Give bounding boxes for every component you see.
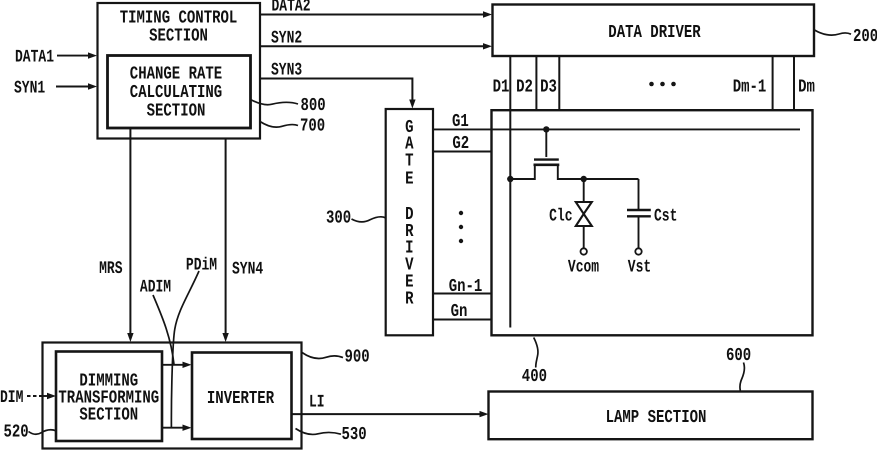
data line D2 (535, 57, 537, 111)
ellipsis between data lines (649, 82, 676, 87)
block: timing control section 700 (98, 3, 261, 139)
data line Dm-1 (772, 57, 774, 111)
svg-text:800: 800 (301, 96, 326, 117)
svg-text:DATA DRIVER: DATA DRIVER (608, 23, 701, 44)
svg-text:Vcom: Vcom (568, 257, 599, 277)
leader + label 600 (726, 346, 751, 391)
svg-text:D2: D2 (516, 77, 533, 98)
wire SYN4 (222, 139, 263, 343)
svg-text:SYN2: SYN2 (271, 28, 302, 48)
svg-text:700: 700 (300, 116, 325, 137)
svg-text:520: 520 (4, 422, 29, 443)
wire LI to lamp section (292, 392, 489, 418)
node: pixel node dot (581, 176, 587, 182)
capacitor Clc (liquid crystal) (549, 179, 592, 248)
svg-text:Clc: Clc (549, 206, 573, 226)
wire MRS (99, 128, 134, 342)
svg-text:D1: D1 (493, 77, 510, 98)
svg-text:LI: LI (309, 392, 325, 412)
svg-text:Vst: Vst (628, 257, 651, 277)
wire: gate stem (545, 129, 547, 157)
svg-text:D3: D3 (540, 77, 557, 98)
wire SYN3 to gate driver (260, 60, 416, 109)
svg-text:DIM: DIM (0, 387, 24, 407)
capacitor Cst (storage) (627, 179, 677, 248)
ellipsis gate lines (459, 211, 463, 243)
terminal Vst (628, 248, 651, 277)
leader + label 400 (522, 338, 547, 388)
input DATA1 (15, 46, 97, 66)
wire PDiM (curved) (171, 255, 217, 427)
terminal Vcom (568, 248, 599, 277)
gate line G2 (433, 134, 492, 155)
data line D1 (509, 57, 511, 328)
svg-text:Dm-1: Dm-1 (733, 77, 767, 98)
block: dimming assembly 900 (outer box) (43, 343, 302, 449)
svg-text:DATA1: DATA1 (15, 46, 54, 66)
svg-text:SYN1: SYN1 (14, 77, 45, 97)
input DIM (dashed) (0, 387, 56, 407)
svg-text:MRS: MRS (99, 258, 123, 278)
leader + label 800 (251, 96, 326, 117)
wire: dimming to inverter lower arrow (163, 425, 192, 431)
gate line Gn-1 (433, 277, 492, 298)
svg-text:200: 200 (853, 27, 877, 48)
gate line G1 (433, 112, 800, 133)
leader + label 200 (815, 27, 877, 48)
svg-text:SYN3: SYN3 (271, 60, 302, 80)
block: LCD panel 400 (492, 110, 813, 335)
svg-text:R: R (405, 289, 414, 310)
svg-text:Dm: Dm (798, 77, 815, 98)
svg-text:SECTION: SECTION (79, 405, 138, 426)
wire: dimming to inverter upper arrow (163, 362, 192, 368)
transistor TFT: channel bar (534, 164, 560, 167)
svg-text:400: 400 (522, 367, 547, 388)
gate line Gn (433, 302, 492, 323)
svg-text:600: 600 (726, 346, 751, 367)
svg-text:530: 530 (342, 425, 367, 446)
node: gate connection dot on G1 (543, 126, 549, 132)
transistor TFT: drain leg to pixel node (558, 166, 639, 179)
svg-text:Cst: Cst (654, 206, 677, 226)
node: source-data junction dot (507, 176, 513, 182)
svg-text:SECTION: SECTION (149, 26, 208, 47)
svg-text:INVERTER: INVERTER (207, 389, 275, 410)
leader + label 520 (4, 422, 57, 443)
block: change rate calculating section 800 (108, 56, 251, 129)
input SYN1 (14, 77, 97, 97)
block: data driver 200 (493, 5, 815, 57)
wire DATA2 to data driver (260, 0, 492, 18)
svg-text:PDiM: PDiM (186, 255, 217, 275)
svg-text:E: E (405, 169, 413, 190)
svg-text:900: 900 (345, 347, 370, 368)
block: dimming transforming section 520 (56, 352, 162, 442)
svg-text:LAMP SECTION: LAMP SECTION (606, 408, 707, 429)
wire ADIM (curved) (140, 277, 174, 365)
block: lamp section 600 (489, 392, 813, 440)
leader + label 700 (260, 116, 325, 137)
wire SYN2 to data driver (260, 28, 492, 50)
transistor TFT: source leg to data line (510, 166, 535, 179)
leader + label 530 (296, 425, 367, 446)
transistor TFT: gate bar (534, 158, 559, 160)
svg-text:SECTION: SECTION (147, 101, 206, 122)
svg-text:ADIM: ADIM (140, 277, 171, 297)
block: gate driver 300 (386, 109, 433, 335)
leader + label 300 (326, 208, 386, 229)
data line Dm (793, 57, 795, 111)
svg-text:SYN4: SYN4 (232, 259, 263, 279)
leader + label 900 (302, 347, 370, 368)
data line D3 (558, 57, 560, 111)
block: inverter 530 (192, 353, 292, 440)
svg-text:300: 300 (326, 208, 351, 229)
